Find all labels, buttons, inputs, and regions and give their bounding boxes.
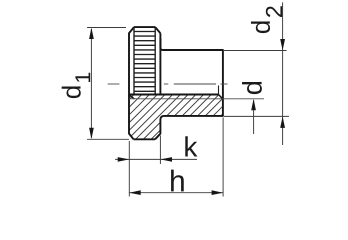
d1 bottom extension line xyxy=(87,138,129,140)
d2 bottom arrow xyxy=(280,116,285,128)
d2 top arrow xyxy=(280,39,285,51)
d2 top extension line xyxy=(224,50,287,52)
centerline xyxy=(108,83,120,85)
label d2 xyxy=(251,21,270,33)
d2 bottom extension line xyxy=(224,115,289,117)
h left arrow xyxy=(129,190,141,195)
d1 top extension line xyxy=(87,27,126,29)
label d1 xyxy=(62,86,81,98)
k dimension line xyxy=(115,158,197,160)
countersink edge right xyxy=(218,86,220,95)
thread major diameter line / d extension xyxy=(129,98,264,100)
k left arrow xyxy=(118,157,130,162)
k right arrow xyxy=(161,157,173,162)
rim right face upper xyxy=(159,33,161,94)
d1 dimension line xyxy=(90,29,92,138)
d dimension line xyxy=(253,100,255,134)
knurl band left boundary xyxy=(133,28,135,94)
label k xyxy=(185,136,197,156)
knurled rim top edge xyxy=(134,26,155,28)
d arrow xyxy=(251,99,256,111)
section hatching xyxy=(84,85,252,145)
h right extension line xyxy=(222,118,224,197)
countersink cone left xyxy=(129,95,134,99)
rim bottom edge xyxy=(134,138,156,140)
rim right face lower + chamfer xyxy=(155,119,160,139)
knurl lines xyxy=(134,31,155,33)
k/h left extension line xyxy=(128,141,130,197)
d1 bottom arrow xyxy=(89,128,94,140)
countersink cone right xyxy=(219,95,223,99)
hub outline xyxy=(160,38,223,120)
d2 dimension line xyxy=(282,2,284,145)
rim top-right chamfer xyxy=(155,27,160,33)
h dimension line xyxy=(129,192,223,194)
knurl band right boundary xyxy=(154,28,156,94)
label d xyxy=(242,82,262,94)
thread hole edge xyxy=(129,94,219,96)
label h xyxy=(171,170,184,192)
h right arrow xyxy=(212,190,224,195)
rim left face with chamfers xyxy=(129,27,134,139)
d1 top arrow xyxy=(89,28,94,40)
k right extension line xyxy=(159,136,161,165)
